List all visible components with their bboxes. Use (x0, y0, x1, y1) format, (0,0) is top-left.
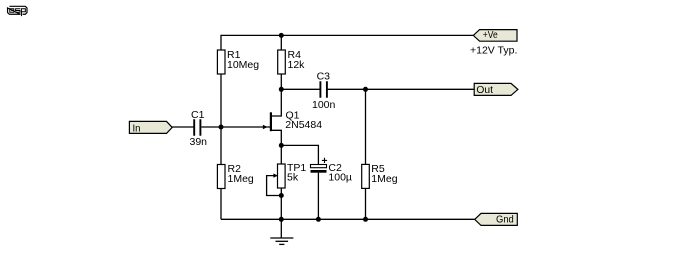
wire: C2 bottom to ground rail (317, 173, 319, 220)
svg-text:10Meg: 10Meg (227, 59, 259, 71)
wire: R4 bottom to drain node (280, 74, 282, 89)
svg-text:+12V Typ.: +12V Typ. (470, 45, 517, 57)
wire: ground rail (221, 218, 475, 220)
wire: R2 top (220, 127, 222, 165)
node: drain junction (279, 87, 284, 92)
wire: R5 bottom to ground rail (365, 188, 367, 219)
capacitor C2 (311, 158, 352, 184)
svg-text:12k: 12k (288, 59, 306, 71)
svg-text:1Meg: 1Meg (228, 173, 254, 185)
wire: drain node to C3 (281, 88, 320, 90)
wire: source node to C2 branch (281, 145, 318, 164)
wire: In tag to C1 (172, 126, 194, 128)
wire: R2 bottom to ground rail (220, 189, 222, 220)
resistor R5 (362, 163, 398, 188)
ESP logo (8, 6, 27, 16)
transistor Q1 2N5484 (263, 89, 322, 145)
wire: source node to TP1 (280, 145, 282, 164)
wire: TP1 bottom to ground rail (280, 188, 282, 219)
svg-text:1Meg: 1Meg (371, 173, 397, 185)
wire: C1 to gate node (202, 126, 222, 128)
wire: top +Ve rail from R1 top to +Ve tag (221, 35, 473, 50)
node: source junction (279, 143, 284, 148)
svg-text:2N5484: 2N5484 (285, 119, 322, 131)
svg-text:+Ve: +Ve (483, 29, 498, 41)
node: TP1 ground junction (279, 217, 284, 222)
node: Out / R5 junction (363, 87, 368, 92)
svg-text:5k: 5k (287, 172, 299, 184)
svg-text:In: In (133, 122, 141, 134)
ground symbol (270, 219, 293, 244)
resistor R4 (278, 49, 305, 74)
wire: R1 bottom to gate node (220, 74, 222, 127)
svg-text:C1: C1 (191, 109, 205, 121)
port tag +Ve (473, 29, 517, 41)
wire: R4 top (280, 35, 282, 50)
svg-text:Gnd: Gnd (496, 214, 514, 226)
resistor R2 (217, 163, 254, 188)
resistor R1 (217, 49, 259, 74)
node: TP1 wiper junction (279, 193, 284, 198)
trimpot TP1 (267, 162, 307, 196)
svg-text:100µ: 100µ (328, 172, 352, 184)
port tag Gnd (475, 213, 518, 225)
node: gate junction (219, 125, 224, 130)
node: C2 ground junction (316, 217, 321, 222)
svg-text:100n: 100n (312, 99, 336, 111)
svg-text:C3: C3 (317, 71, 331, 83)
capacitor C1 (190, 109, 208, 148)
svg-text:39n: 39n (190, 136, 208, 148)
wire: R5 top (365, 89, 367, 164)
capacitor C3 (312, 71, 336, 111)
port tag Out (474, 83, 518, 96)
node: R5 ground junction (363, 217, 368, 222)
wire: C3 to Out tag (327, 88, 474, 90)
node: +Ve / R4 junction (279, 33, 284, 38)
wire: gate wire to Q1 (221, 126, 270, 128)
port tag In (129, 121, 172, 134)
svg-text:Out: Out (476, 84, 493, 96)
